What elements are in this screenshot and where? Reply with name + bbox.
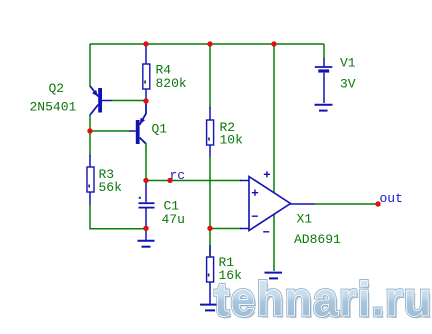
wire Q1 collector down	[145, 143, 147, 180]
resistor R4	[143, 44, 150, 101]
wire minus node to opamp -	[210, 228, 241, 230]
wire output	[314, 203, 378, 205]
svg-text:V1: V1	[340, 55, 356, 70]
svg-text:Q2: Q2	[49, 81, 65, 96]
wire top rail	[90, 43, 324, 45]
wire R2 branch upper	[209, 44, 211, 108]
wire Q2 base to node	[111, 100, 146, 102]
svg-text:47u: 47u	[162, 212, 185, 227]
transistor Q1	[130, 101, 147, 144]
watermark tehnari.ru	[215, 273, 432, 328]
node out marker	[375, 201, 380, 206]
resistor R2	[207, 107, 214, 157]
svg-text:2N5401: 2N5401	[30, 100, 77, 115]
battery V1	[315, 58, 333, 103]
resistor R3	[87, 155, 94, 205]
wire opamp V+ supply	[273, 44, 275, 192]
svg-text:56k: 56k	[99, 180, 123, 195]
wire rc node to opamp +	[146, 180, 241, 182]
svg-text:3V: 3V	[340, 77, 356, 92]
junction node top V+	[271, 41, 276, 46]
junction node top R2	[207, 41, 212, 46]
wire Q1 base	[90, 130, 130, 132]
svg-text:rc: rc	[170, 168, 186, 183]
junction node top R4	[143, 41, 148, 46]
ground below R1	[200, 305, 221, 311]
wire left vertical lower	[90, 204, 146, 229]
svg-text:Q1: Q1	[152, 122, 168, 137]
junction node R4 bottom	[143, 98, 148, 103]
junction node C1 bottom	[143, 226, 148, 231]
ground below opamp	[265, 273, 283, 279]
resistor R1	[207, 228, 214, 304]
svg-text:X1: X1	[297, 211, 313, 226]
node rc marker	[167, 178, 172, 183]
svg-text:820k: 820k	[156, 76, 187, 91]
svg-text:tehnari.ru: tehnari.ru	[215, 273, 432, 326]
wire left vertical upper	[89, 44, 91, 87]
svg-text:out: out	[380, 191, 403, 206]
transistor Q2	[90, 86, 112, 115]
capacitor C1	[139, 180, 155, 228]
junction node rc	[143, 178, 148, 183]
ground below C1	[138, 228, 155, 247]
wire opamp V- to ground	[273, 215, 275, 272]
junction node Q1 base	[87, 128, 92, 133]
svg-text:10k: 10k	[220, 133, 244, 148]
wire battery branch	[323, 44, 325, 59]
wire R2 to R1 vertical	[209, 156, 211, 228]
svg-text:AD8691: AD8691	[294, 232, 341, 247]
op-amp U1 X1	[240, 171, 315, 232]
junction node inverting input	[207, 226, 212, 231]
wire left vertical mid	[89, 115, 91, 157]
ground below V1	[315, 105, 333, 111]
